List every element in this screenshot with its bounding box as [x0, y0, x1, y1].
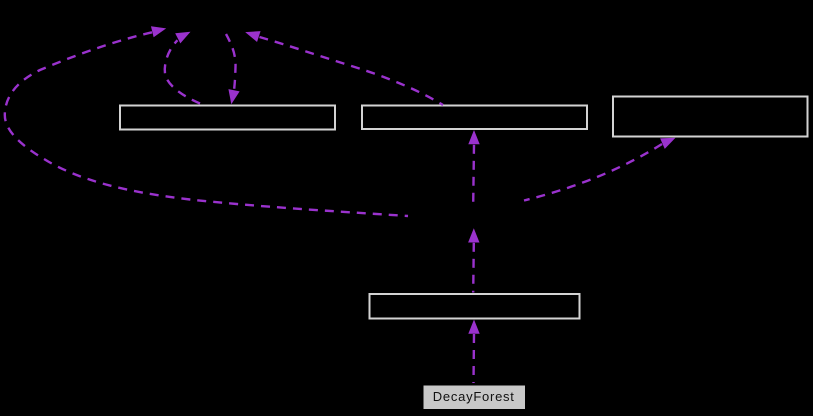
arrowhead E8 [468, 320, 479, 334]
node N3 empty class box top-right (two-line) [613, 97, 808, 137]
edge E5 from middle hidden node up-right into box N3 [524, 144, 662, 201]
arrowhead E2 [175, 27, 193, 44]
edge E7 vertical from middle hidden node up into box N2 [472, 145, 475, 204]
edge E6 vertical from box N4 up to middle hidden node [472, 243, 475, 293]
arrowhead E1 [151, 23, 168, 37]
edge E8 vertical from DecayForest up into box N4 [472, 334, 475, 383]
arrowhead E4 [243, 27, 260, 42]
node N4 empty class box middle [370, 294, 580, 319]
node DecayForest (main node, gray fill) [424, 386, 526, 410]
arrowhead E6 [468, 228, 479, 242]
node N1 empty class box top-left [120, 106, 335, 130]
edge E2 loop from box N1 up to top hidden node [165, 40, 200, 103]
arrowhead E5 [660, 133, 678, 149]
edge E4 from box N2 top up-left to top hidden node [260, 37, 444, 105]
edge E3 from top hidden node down into box N1 [226, 34, 236, 89]
arrowhead E3 [226, 89, 240, 105]
node N2 empty class box top-middle [362, 106, 587, 130]
svg-text:DecayForest: DecayForest [433, 389, 515, 404]
arrowhead E7 [468, 130, 479, 144]
edge E1 big left curve (middle hidden node to top hidden node) [5, 32, 408, 216]
